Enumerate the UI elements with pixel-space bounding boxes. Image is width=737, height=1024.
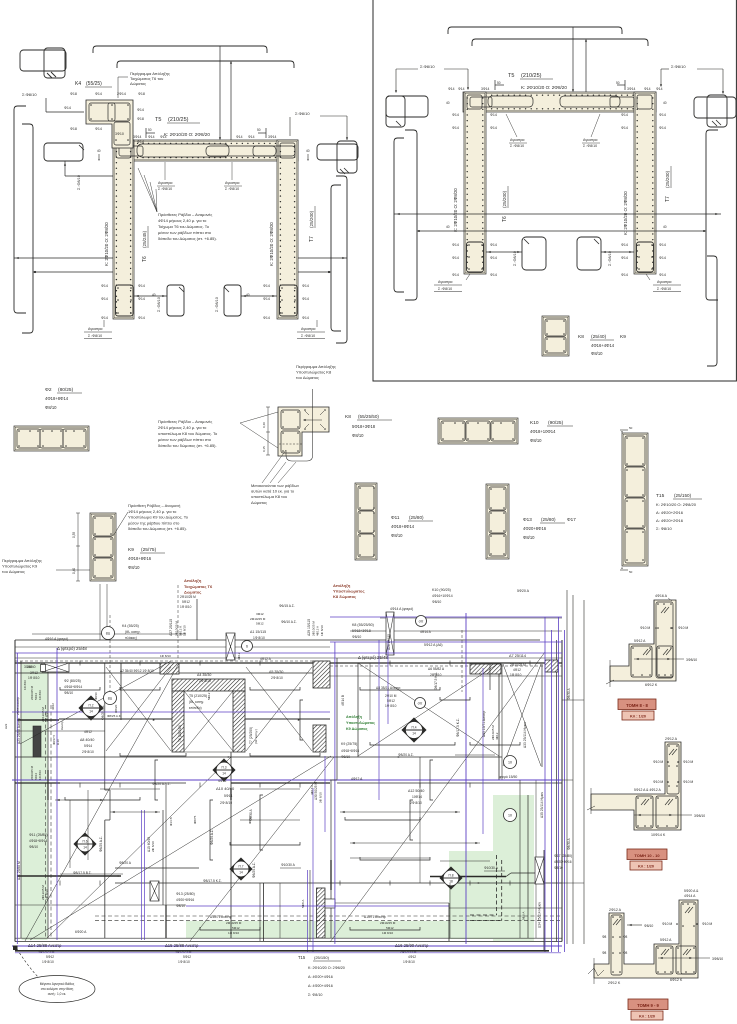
svg-text:Α: 4Φ20+4Φ16: Α: 4Φ20+4Φ16 (308, 975, 333, 979)
svg-text:Φ14: Φ14 (263, 316, 270, 320)
svg-text:(25/245): (25/245) (142, 230, 147, 248)
dimension line mid (right frame) (394, 213, 721, 215)
svg-text:Κ10 (90/25): Κ10 (90/25) (432, 588, 451, 592)
svg-text:Φ14: Φ14 (621, 113, 628, 117)
svg-text:Φ14: Φ14 (659, 273, 666, 277)
svg-text:Φ14: Φ14 (101, 297, 108, 301)
svg-text:Δ6 55/82 Α: Δ6 55/82 Α (428, 667, 445, 671)
svg-text:Φ14: Φ14 (452, 273, 459, 277)
svg-text:Κ8: Κ8 (578, 334, 584, 340)
svg-text:2Φ 8/10: 2Φ 8/10 (319, 792, 323, 803)
svg-text:Τοιχώματος Τ6: Τοιχώματος Τ6 (184, 584, 213, 589)
svg-text:Κ9 (25/75): Κ9 (25/75) (341, 742, 357, 746)
svg-text:3Φ14: 3Φ14 (627, 87, 635, 91)
svg-text:Σ :Φ8/10: Σ :Φ8/10 (438, 287, 452, 291)
svg-text:Τ15: Τ15 (656, 493, 665, 499)
svg-text:Φ8/20 Α: Φ8/20 Α (119, 861, 132, 865)
svg-text:Φ13: Φ13 (523, 517, 532, 522)
section T15 (25/150) tall (622, 433, 648, 566)
svg-text:πλάκας): πλάκας) (125, 636, 137, 640)
svg-text:4Φ18+8Φ16: 4Φ18+8Φ16 (128, 556, 152, 561)
tall bracket right pair (right frame) (706, 130, 718, 300)
svg-text:5Φ18+3Φ18: 5Φ18+3Φ18 (352, 629, 371, 633)
svg-text:Σ: Φ8/10: Σ: Φ8/10 (308, 993, 322, 997)
svg-text:Σ:Φ8/10: Σ:Φ8/10 (671, 64, 686, 69)
right-of-plan dimension verticals (566, 590, 568, 944)
svg-text:1Φ 8/10: 1Φ 8/10 (42, 960, 54, 964)
svg-text:3Φ14: 3Φ14 (481, 87, 489, 91)
svg-text:5Φ12 Α: 5Φ12 Α (634, 639, 646, 643)
svg-text:6Φ12 Κ: 6Φ12 Κ (645, 683, 658, 687)
svg-text:σπ: σπ (419, 619, 424, 623)
dimension bracket upper 1 (left frame) (93, 46, 267, 53)
svg-text:5Φ8 Α: 5Φ8 Α (301, 900, 305, 908)
hatched column F (470, 664, 501, 674)
svg-text:Φ14: Φ14 (101, 284, 108, 288)
callout fan to joint (138, 168, 157, 212)
svg-text:1Φ 8/10: 1Φ 8/10 (28, 676, 40, 680)
svg-text:(25/80): (25/80) (409, 515, 424, 520)
hatched column D (313, 725, 326, 752)
svg-text:Δ28 15/115: Δ28 15/115 (387, 634, 391, 650)
column N xbox right (535, 857, 544, 884)
svg-text:Φ8/75: Φ8/75 (193, 815, 197, 824)
svg-text:Φ14: Φ14 (248, 135, 255, 139)
svg-text:Φ10 Μ: Φ10 Μ (702, 922, 712, 926)
svg-text:Δ23 25/88 Ανεστρ: Δ23 25/88 Ανεστρ (17, 718, 21, 744)
svg-text:1Φ14 μήκους 2,40 μ. για το: 1Φ14 μήκους 2,40 μ. για το (128, 509, 177, 514)
svg-text:Κ9 Δώματος: Κ9 Δώματος (346, 727, 368, 731)
svg-text:40: 40 (97, 149, 101, 153)
tall bracket right outer (336, 176, 347, 343)
svg-text:5Φ12: 5Φ12 (46, 955, 54, 959)
anchor hook top-left (20, 50, 66, 71)
svg-text:4Φ12: 4Φ12 (218, 779, 226, 783)
svg-text:Φ6/10 Α.Σ.: Φ6/10 Α.Σ. (281, 620, 297, 624)
svg-text:Φ8/20 Α Δ.Σ.: Φ8/20 Α Δ.Σ. (152, 782, 171, 786)
svg-text:4Φ16+10Φ14: 4Φ16+10Φ14 (432, 594, 453, 598)
svg-text:Φ14: Φ14 (448, 87, 455, 91)
svg-text:2Φ10 Μ: 2Φ10 Μ (385, 694, 397, 698)
svg-text:Φ11 (25/85): Φ11 (25/85) (29, 833, 48, 837)
svg-text:Φ14: Φ14 (452, 126, 459, 130)
svg-text:Φ14: Φ14 (644, 87, 651, 91)
svg-text:σπ: σπ (418, 701, 423, 705)
svg-text:Φ8/30 Α: Φ8/30 Α (249, 809, 253, 821)
dimension line right 1 (298, 257, 347, 259)
svg-text:Φ10 Μ: Φ10 Μ (662, 922, 672, 926)
svg-text:3Φ10: 3Φ10 (115, 132, 124, 136)
svg-text:Αγκιστρα: Αγκιστρα (158, 181, 172, 185)
svg-text:5Φ12 Α & 4Φ12 Α: 5Φ12 Α & 4Φ12 Α (634, 788, 661, 792)
svg-text:Σ:Φ8/10: Σ:Φ8/10 (295, 111, 310, 116)
svg-text:14: 14 (412, 732, 416, 736)
svg-text:Φ14: Φ14 (490, 273, 497, 277)
svg-text:Φ14: Φ14 (101, 316, 108, 320)
svg-text:ΚΛ : 1/20: ΚΛ : 1/20 (630, 714, 646, 718)
extra thin verticals lower-left rooms (69, 800, 71, 868)
tall bracket left pair (right frame) (405, 130, 417, 300)
svg-text:μέσον της ράβδου πίπτει στο: μέσον της ράβδου πίπτει στο (128, 520, 180, 525)
green slab zone bottom strip (186, 921, 449, 938)
svg-text:4Φ12 Α: 4Φ12 Α (351, 777, 363, 781)
svg-text:Κ8 δώματος: Κ8 δώματος (333, 594, 356, 599)
hatched column K (545, 660, 558, 672)
tall bracket right inner (331, 185, 341, 331)
svg-text:4Φ16+4Φ14: 4Φ16+4Φ14 (591, 343, 615, 348)
svg-text:2Φ 8/10: 2Φ 8/10 (151, 841, 155, 852)
svg-text:5Φ12: 5Φ12 (232, 926, 240, 930)
svg-text:Π.8: Π.8 (449, 874, 454, 878)
perimeter line of K8 column (286, 389, 313, 461)
svg-text:Φ14: Φ14 (302, 316, 309, 320)
tick 50 left (145, 128, 147, 138)
svg-text:4Φ18+8Φ14: 4Φ18+8Φ14 (45, 396, 69, 401)
svg-text:4Φ18+8Φ16: 4Φ18+8Φ16 (341, 749, 359, 753)
svg-text:Δ4 35/30: Δ4 35/30 (197, 673, 211, 677)
svg-text:Σ :Φ8/10: Σ :Φ8/10 (657, 287, 671, 291)
dimension line mid 2 (right frame) (417, 230, 706, 232)
svg-text:Φ14: Φ14 (138, 316, 145, 320)
svg-text:Φ14: Φ14 (236, 135, 243, 139)
svg-text:Φ14: Φ14 (621, 256, 628, 260)
svg-text:Φ14: Φ14 (138, 297, 145, 301)
svg-text:(90/25): (90/25) (548, 420, 564, 426)
svg-text:Αγκιστρα: Αγκιστρα (438, 280, 452, 284)
anchor hook right of beam (317, 144, 358, 160)
svg-text:Κ: 2Φ10/20 Ο: 2Φ8/20: Κ: 2Φ10/20 Ο: 2Φ8/20 (623, 191, 628, 235)
svg-text:Αγκιστρα: Αγκιστρα (88, 327, 102, 331)
dimension arrow to beam T5 (219, 46, 221, 139)
svg-text:2Φ10/25 Μ: 2Φ10/25 Μ (250, 617, 266, 621)
section K9 (25/75) lower-left (90, 513, 116, 581)
svg-text:2Φ 8/10: 2Φ 8/10 (220, 801, 232, 805)
dimension line left 1 (14, 257, 113, 259)
svg-text:Σ :Φ8/10: Σ :Φ8/10 (301, 334, 315, 338)
svg-text:Σ :Φ8/10: Σ :Φ8/10 (225, 187, 239, 191)
svg-text:40: 40 (663, 225, 667, 229)
svg-text:Αγκιστρα: Αγκιστρα (225, 181, 239, 185)
svg-text:Σ :Φ8/10: Σ :Φ8/10 (608, 251, 612, 266)
connector lines from K9 section to plan (99, 584, 101, 640)
svg-text:Φ8: Φ8 (623, 951, 628, 955)
svg-text:Φ8/10: Φ8/10 (341, 755, 350, 759)
svg-text:3Φ12: 3Φ12 (237, 652, 241, 660)
svg-text:Υποστύλωμα Κ9 του Δώματος. Το: Υποστύλωμα Κ9 του Δώματος. Το (128, 515, 189, 520)
plan top beam lines (15, 639, 540, 641)
svg-text:Φ8/17.5 Β.Σ.: Φ8/17.5 Β.Σ. (73, 871, 92, 875)
svg-text:2Φ12 Κ: 2Φ12 Κ (608, 981, 621, 985)
svg-text:(25/80): (25/80) (541, 517, 556, 522)
svg-text:3Φ12: 3Φ12 (30, 671, 38, 675)
svg-text:ΚΛ : 1/20: ΚΛ : 1/20 (639, 1014, 655, 1018)
svg-text:Αγκιστρα: Αγκιστρα (301, 327, 315, 331)
svg-text:Σ :Φ8/10: Σ :Φ8/10 (158, 187, 172, 191)
svg-text:Κ8: Κ8 (345, 414, 351, 420)
column foot section left (116, 285, 134, 316)
svg-text:3Φ8/10: 3Φ8/10 (712, 957, 723, 961)
svg-text:Δ10 40/40: Δ10 40/40 (216, 786, 235, 791)
svg-text:(25/200): (25/200) (665, 170, 670, 188)
svg-text:Φ14: Φ14 (659, 113, 666, 117)
beam T5 elevation right frame (463, 92, 656, 112)
svg-text:K4: K4 (75, 81, 81, 87)
svg-text:Φ14: Φ14 (160, 135, 167, 139)
svg-text:4Φ18+10Φ14: 4Φ18+10Φ14 (530, 429, 556, 434)
svg-text:T5: T5 (508, 73, 514, 79)
svg-text:4Φ14 Α (φτερό): 4Φ14 Α (φτερό) (390, 607, 413, 611)
svg-text:1Φ 8/10: 1Φ 8/10 (510, 673, 522, 677)
svg-text:Φ8/10: Φ8/10 (94, 692, 98, 700)
svg-text:Φ8/10: Φ8/10 (591, 351, 603, 356)
svg-text:Φ18: Φ18 (70, 127, 77, 131)
svg-text:5Φ12: 5Φ12 (182, 600, 190, 604)
svg-text:Φ14: Φ14 (490, 256, 497, 260)
svg-text:5Φ12 Α: 5Φ12 Α (660, 938, 672, 942)
foot hooks between columns right frame (522, 237, 546, 270)
svg-text:1Φ 8/10: 1Φ 8/10 (253, 636, 265, 640)
svg-text:Δ15/71 Ανεστρ: Δ15/71 Ανεστρ (364, 915, 386, 919)
green slab zone left (22, 664, 48, 940)
svg-text:επίπεδο): επίπεδο) (189, 706, 202, 710)
svg-text:5Φ12: 5Φ12 (387, 699, 395, 703)
svg-text:Κ: 2Φ10/20 Ο: 2Φ8/20: Κ: 2Φ10/20 Ο: 2Φ8/20 (269, 222, 274, 266)
svg-text:Κ: 2Φ10/20 Ο: 2Φ8/20: Κ: 2Φ10/20 Ο: 2Φ8/20 (521, 85, 567, 90)
svg-text:Σ:Φ8/10: Σ:Φ8/10 (420, 64, 435, 69)
svg-text:Δ29 15/115: Δ29 15/115 (307, 619, 311, 636)
svg-text:Φ8/10: Φ8/10 (432, 600, 441, 604)
tall bracket far-left outer (14, 106, 26, 313)
svg-text:Σ:Φ8/10: Σ:Φ8/10 (22, 92, 37, 97)
svg-text:Φ14: Φ14 (656, 87, 663, 91)
svg-text:Δ15/71 Ανεστρ: Δ15/71 Ανεστρ (210, 915, 232, 919)
svg-text:Σ :Φ8/10: Σ :Φ8/10 (583, 144, 597, 148)
svg-text:4Φ12: 4Φ12 (51, 703, 55, 710)
svg-text:Φ8/10: Φ8/10 (644, 924, 653, 928)
svg-text:1Φ 8/10: 1Φ 8/10 (160, 654, 171, 658)
svg-text:Φ13 (25/80): Φ13 (25/80) (176, 892, 195, 896)
svg-text:4Φ12: 4Φ12 (84, 730, 92, 734)
svg-text:1Φ 8/10: 1Φ 8/10 (228, 931, 239, 935)
section K8 (55/25/50) L-shape (278, 407, 329, 456)
svg-text:Φ10 Μ: Φ10 Μ (653, 780, 663, 784)
svg-text:4Φ12: 4Φ12 (408, 955, 416, 959)
left column T6 right frame (464, 92, 486, 274)
svg-text:5Φ12: 5Φ12 (386, 926, 394, 930)
svg-text:3Φ14: 3Φ14 (133, 135, 141, 139)
svg-text:2Φ10/25 Μ: 2Φ10/25 Μ (226, 921, 242, 925)
wall jogs and stubs (105, 789, 110, 791)
svg-text:Φ14: Φ14 (490, 243, 497, 247)
slab diagonals (25, 663, 179, 941)
svg-text:Δ7 25/114: Δ7 25/114 (509, 654, 526, 658)
svg-text:(θλ. κατηγ.: (θλ. κατηγ. (189, 700, 204, 704)
svg-text:Κ: 2Φ10/20 Ο: 2Φ8/20: Κ: 2Φ10/20 Ο: 2Φ8/20 (104, 222, 109, 266)
svg-text:Π.2: Π.2 (89, 704, 94, 708)
svg-text:4Φ18+8Φ14: 4Φ18+8Φ14 (391, 524, 415, 529)
svg-text:Αγκιστρα: Αγκιστρα (583, 138, 597, 142)
svg-text:(25/150): (25/150) (674, 493, 692, 498)
svg-text:Ανεστρ: Ανεστρ (60, 721, 64, 730)
svg-text:40: 40 (446, 225, 450, 229)
svg-text:(210/25): (210/25) (521, 73, 542, 79)
svg-text:(25/200): (25/200) (502, 190, 507, 208)
svg-text:Κ10: Κ10 (530, 420, 539, 426)
svg-text:Υποστυλώματος: Υποστυλώματος (333, 589, 365, 594)
svg-text:Τ6 (25/245): Τ6 (25/245) (178, 725, 182, 742)
svg-text:Φ14 Β: Φ14 Β (169, 817, 173, 826)
svg-text:40: 40 (306, 149, 310, 153)
svg-text:1Φ 8/10: 1Φ 8/10 (183, 625, 187, 636)
svg-text:1Φ 8/10: 1Φ 8/10 (403, 960, 415, 964)
rebar bars with hooks (120, 753, 186, 756)
svg-text:Μετακινούνται των ράβδων: Μετακινούνται των ράβδων (251, 483, 299, 488)
svg-text:Δ21 25/88 Μ: Δ21 25/88 Μ (17, 861, 21, 880)
svg-text:Φ14: Φ14 (148, 135, 155, 139)
section TOMH 10-10 concrete shape (591, 742, 681, 830)
svg-text:Φ8/20 Α.Σ.: Φ8/20 Α.Σ. (210, 829, 214, 845)
svg-text:2Φ10/25 Μ: 2Φ10/25 Μ (510, 663, 526, 667)
svg-text:40: 40 (663, 101, 667, 105)
svg-text:40: 40 (246, 293, 250, 297)
dimension arrow up (right frame) (585, 40, 587, 111)
vertical rebar bars (210, 800, 213, 860)
svg-text:Π.3: Π.3 (222, 766, 227, 770)
svg-text:Δ14 25/88 Ανεστρ: Δ14 25/88 Ανεστρ (28, 943, 62, 948)
svg-text:Τ7: Τ7 (309, 236, 315, 242)
svg-text:2Φ14 μήκους 2,40 μ. για το: 2Φ14 μήκους 2,40 μ. για το (158, 425, 207, 430)
TOMH 8-8 label (618, 699, 656, 710)
column L xbox (226, 633, 235, 660)
TOMH8 stirrups (631, 646, 652, 677)
column M xbox (386, 612, 394, 655)
svg-text:5Φ20 Α: 5Φ20 Α (517, 589, 530, 593)
svg-text:(55/25): (55/25) (86, 81, 102, 87)
dimension line left 2 (33, 271, 113, 273)
svg-text:Δ (φτερό) 25/48: Δ (φτερό) 25/48 (57, 646, 87, 651)
svg-text:Δ: 4Φ20+2Φ16: Δ: 4Φ20+2Φ16 (656, 518, 684, 523)
tall bracket far-left inner (22, 124, 33, 333)
svg-text:50: 50 (616, 81, 620, 85)
svg-text:1Φ 8/10: 1Φ 8/10 (320, 625, 324, 636)
svg-text:Φ18: Φ18 (70, 92, 77, 96)
svg-text:Δ15 25/88 Ανεστρ: Δ15 25/88 Ανεστρ (165, 943, 199, 948)
svg-text:δάπεδο του δώματος (στ. +6.85): δάπεδο του δώματος (στ. +6.85). (158, 443, 217, 448)
section K10 (90/25) (438, 418, 518, 444)
svg-text:14: 14 (89, 710, 93, 714)
dimension ticks on walls (79, 661, 81, 666)
svg-text:3Φ8/10: 3Φ8/10 (686, 658, 697, 662)
svg-text:μέσον των ράβδων πίπτει στο: μέσον των ράβδων πίπτει στο (158, 230, 212, 235)
svg-text:αυτών κατά 10 εκ. για το: αυτών κατά 10 εκ. για το (251, 489, 295, 494)
svg-text:1Φ 8/10: 1Φ 8/10 (180, 605, 192, 609)
svg-text:Τ7 (25/200): Τ7 (25/200) (249, 727, 253, 744)
svg-text:Φ8/10: Φ8/10 (530, 438, 542, 443)
svg-text:Φ8/10: Φ8/10 (391, 533, 403, 538)
svg-text:(25/75): (25/75) (141, 547, 157, 553)
svg-text:Δ22: Δ22 (4, 723, 8, 729)
foot hooks between columns (167, 285, 184, 316)
svg-text:3Φ14: 3Φ14 (268, 135, 276, 139)
svg-text:Φ10 Μ: Φ10 Μ (653, 760, 663, 764)
svg-text:Σ :Φ8/10: Σ :Φ8/10 (510, 144, 524, 148)
svg-text:Φ8/30 Α: Φ8/30 Α (567, 688, 571, 700)
svg-text:4Φ14 μήκους 2,40 μ. για το: 4Φ14 μήκους 2,40 μ. για το (158, 218, 207, 223)
svg-text:(25/40): (25/40) (591, 334, 607, 340)
svg-text:4Φ18+8Φ14: 4Φ18+8Φ14 (64, 685, 82, 689)
svg-text:3Φ12: 3Φ12 (256, 612, 264, 616)
svg-text:Φ11: Φ11 (391, 515, 400, 520)
svg-text:Περίγραμμα Απόληξης: Περίγραμμα Απόληξης (2, 558, 42, 563)
svg-text:Φ14: Φ14 (659, 126, 666, 130)
svg-text:Φ14: Φ14 (490, 126, 497, 130)
svg-text:50: 50 (629, 570, 633, 574)
green slab zone right strip (493, 795, 534, 941)
svg-text:Δ: 4Φ20+4Φ16: Δ: 4Φ20+4Φ16 (308, 984, 333, 988)
dashed removed-wall outline bottom right (496, 855, 498, 915)
corner stirrup right joint (280, 143, 295, 158)
hatched column H (317, 888, 326, 938)
svg-text:δάπεδο του Δώματος (στ. +6.85): δάπεδο του Δώματος (στ. +6.85). (128, 526, 187, 531)
svg-text:Φ10 Μ: Φ10 Μ (683, 780, 693, 784)
svg-text:Φ10/30 Α: Φ10/30 Α (484, 866, 499, 870)
svg-text:Υποστυλώματος: Υποστυλώματος (346, 721, 375, 725)
dimension bracket upper 2 (left frame) (117, 61, 294, 68)
svg-text:5Φ12: 5Φ12 (207, 692, 211, 700)
joint stirrups right frame (467, 95, 482, 109)
dimension bracket upper 2 (right frame) (472, 39, 648, 46)
anchor hooks left of right frame (386, 96, 428, 117)
svg-text:(55/25/50): (55/25/50) (358, 414, 379, 419)
svg-text:Δ12 50/40: Δ12 50/40 (408, 789, 424, 793)
svg-text:Σ :Φ8/10: Σ :Φ8/10 (157, 297, 161, 312)
svg-text:Φ14: Φ14 (659, 243, 666, 247)
note ellipse bottom-left (13, 946, 18, 951)
svg-text:50: 50 (497, 81, 501, 85)
svg-text:Αγκιστρα: Αγκιστρα (657, 280, 671, 284)
svg-text:Κ: 2Φ10/20 Ο: 2Φ8/20: Κ: 2Φ10/20 Ο: 2Φ8/20 (656, 502, 697, 507)
svg-text:Τ5 (210/25): Τ5 (210/25) (189, 694, 207, 698)
svg-text:2Φ12 Α: 2Φ12 Α (609, 908, 622, 912)
svg-text:(25/150): (25/150) (314, 955, 330, 960)
short hatched wall top-left (41, 665, 46, 672)
column I xbox (150, 881, 159, 901)
svg-text:8Δ: 8Δ (106, 631, 111, 635)
dashed lines above bottom green strip (95, 915, 560, 917)
svg-text:2Φ12 Α: 2Φ12 Α (665, 737, 678, 741)
svg-text:1Φ 8/10: 1Φ 8/10 (45, 889, 49, 900)
dimension arrow to beam (right frame) (572, 27, 574, 91)
svg-text:Τ7: Τ7 (665, 196, 671, 202)
section TOMH 9-9 concrete shape (594, 900, 698, 978)
svg-text:Α: 4Φ20+2Φ16: Α: 4Φ20+2Φ16 (656, 510, 684, 515)
svg-text:Σ: Φ8/10: Σ: Φ8/10 (656, 526, 672, 531)
svg-text:5Φ18+3Φ18: 5Φ18+3Φ18 (352, 424, 376, 429)
svg-text:Σ :Φ8/10: Σ :Φ8/10 (77, 175, 81, 190)
svg-text:14: 14 (239, 871, 243, 875)
extra dim rows lower plan (55, 799, 105, 801)
svg-text:Φ8/10: Φ8/10 (523, 535, 535, 540)
long bottom rule (15, 950, 549, 952)
svg-text:Φ14: Φ14 (452, 243, 459, 247)
corner stirrup left joint (116, 143, 131, 158)
svg-text:Δ16 25/90 Ανεστρ: Δ16 25/90 Ανεστρ (395, 943, 429, 948)
svg-text:Κ: 2Φ10/20 Ο: 2Φ8/20: Κ: 2Φ10/20 Ο: 2Φ8/20 (164, 132, 210, 137)
svg-text:(θλ. κατηγ.: (θλ. κατηγ. (125, 630, 141, 634)
svg-text:0,40: 0,40 (262, 422, 266, 428)
svg-text:Φ14: Φ14 (458, 87, 465, 91)
plan mid walls horizontal (17, 719, 59, 721)
